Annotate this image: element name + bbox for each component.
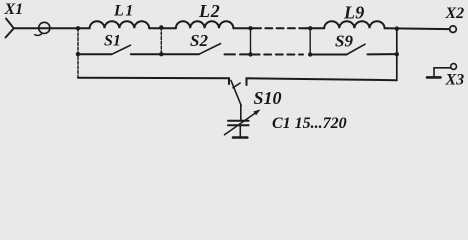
svg-text:S1: S1 bbox=[104, 33, 121, 50]
svg-text:X3: X3 bbox=[445, 72, 465, 89]
svg-text:C1 15...720: C1 15...720 bbox=[272, 115, 347, 132]
svg-text:S9: S9 bbox=[335, 32, 353, 51]
svg-text:S10: S10 bbox=[254, 88, 282, 108]
svg-text:L9: L9 bbox=[343, 3, 365, 23]
svg-text:L2: L2 bbox=[198, 1, 221, 21]
svg-text:X2: X2 bbox=[445, 5, 465, 22]
svg-text:S2: S2 bbox=[190, 31, 208, 50]
svg-text:L1: L1 bbox=[113, 3, 135, 20]
svg-text:X1: X1 bbox=[4, 1, 24, 18]
